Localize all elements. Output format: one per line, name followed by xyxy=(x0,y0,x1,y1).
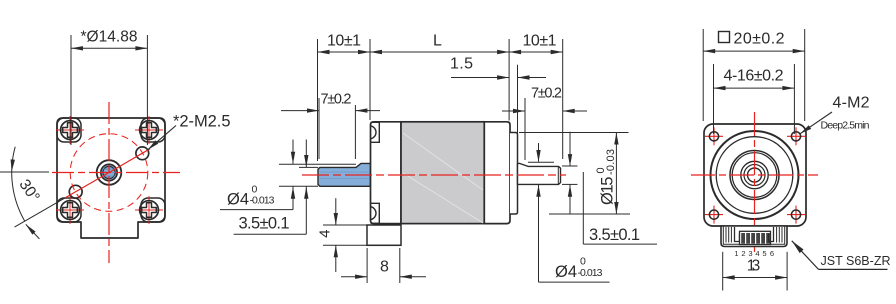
svg-text:20±0.2: 20±0.2 xyxy=(734,31,785,48)
can circle xyxy=(711,131,799,219)
connector body xyxy=(721,226,787,247)
bearing circles xyxy=(741,161,768,188)
M2 hole top-right xyxy=(787,127,805,145)
top arrow xyxy=(10,159,15,171)
leader *2-M2.5 xyxy=(146,113,230,152)
flat ext line short xyxy=(299,166,318,168)
leader 4-M2 xyxy=(800,112,832,134)
dimension phi4 left xyxy=(292,140,294,164)
middle recess xyxy=(740,231,771,244)
bottom arrow xyxy=(26,224,40,239)
dimension 3.5 rear xyxy=(569,132,571,166)
svg-text:0: 0 xyxy=(580,256,586,268)
svg-text:6: 6 xyxy=(770,249,774,258)
rear shaft top ext xyxy=(562,165,578,167)
dimension 4 connector height xyxy=(323,224,367,226)
svg-text:-0.013: -0.013 xyxy=(578,267,603,279)
M2.5 hole lower-left xyxy=(69,185,82,198)
rear shaft bottom ext xyxy=(562,183,578,185)
front flange xyxy=(371,122,402,224)
svg-text:7±0.2: 7±0.2 xyxy=(321,92,352,108)
pocket top-left xyxy=(57,118,81,142)
screw top-left xyxy=(56,116,84,144)
svg-text:7±0.2: 7±0.2 xyxy=(531,86,562,102)
svg-text:2: 2 xyxy=(741,249,745,258)
svg-text:Ø4: Ø4 xyxy=(555,263,577,281)
ext line rear shaft end xyxy=(562,39,564,159)
svg-text:Ø15: Ø15 xyxy=(599,177,617,206)
svg-text:8: 8 xyxy=(380,259,389,276)
dimension square 20 xyxy=(702,29,704,121)
left ribs xyxy=(725,227,727,243)
dimension 3.5 left xyxy=(305,140,307,168)
pocket bottom-right xyxy=(141,198,165,222)
bolt circle red dashed xyxy=(70,134,148,212)
svg-text:4-M2: 4-M2 xyxy=(833,95,870,112)
svg-text:*2-M2.5: *2-M2.5 xyxy=(173,113,231,131)
ext line shaft tip xyxy=(317,39,319,161)
right view connector xyxy=(721,226,787,258)
dimension phi15 xyxy=(519,132,629,134)
dimension *Phi14.88 xyxy=(71,28,147,145)
red centerline middle xyxy=(302,174,566,176)
M2 hole bottom-right xyxy=(787,206,805,224)
dimension phi4 rear xyxy=(538,143,540,162)
svg-text:10±1: 10±1 xyxy=(327,33,361,50)
pocket bottom-left xyxy=(57,198,81,222)
screw bottom-right xyxy=(135,196,163,224)
right view holes + crosses xyxy=(705,127,805,223)
dimension L xyxy=(370,51,509,53)
rear shaft silhouette xyxy=(528,161,554,163)
screw top-right xyxy=(135,116,163,144)
svg-text:-0.03: -0.03 xyxy=(605,149,617,175)
boss circles xyxy=(730,151,779,200)
dimension 13 xyxy=(722,252,724,291)
M2.5 hole upper-right xyxy=(136,147,149,160)
svg-text:JST S6B-ZR: JST S6B-ZR xyxy=(821,254,891,268)
dimension 4-16 xyxy=(713,64,715,134)
shaft center left view xyxy=(97,160,122,185)
svg-text:0: 0 xyxy=(252,183,258,195)
svg-text:4-16±0.2: 4-16±0.2 xyxy=(724,68,784,85)
svg-text:5: 5 xyxy=(762,249,766,258)
pins xyxy=(741,233,745,244)
body outline rear xyxy=(704,124,806,226)
dimension 10+-1 rear xyxy=(509,51,563,53)
30 degree dimension xyxy=(0,147,65,239)
centerline vertical red xyxy=(108,102,110,263)
dimension 7+-0.2 rear xyxy=(524,98,526,160)
ext line rear flange face xyxy=(508,39,510,121)
shaft blue xyxy=(101,164,117,180)
middle dims xyxy=(220,33,657,284)
red construction overlay left view xyxy=(52,102,180,263)
rear shaft end chamfer line xyxy=(557,166,559,184)
horizontal leg xyxy=(0,171,49,173)
right view dims xyxy=(703,29,890,291)
rear boss ring xyxy=(510,133,518,215)
dimension 7+-0.2 front xyxy=(318,98,320,159)
shaft circle xyxy=(748,168,762,182)
inner border xyxy=(723,226,784,244)
arc xyxy=(12,147,25,222)
svg-text:Ø4: Ø4 xyxy=(227,191,249,209)
M2 hole bottom-left xyxy=(705,206,723,224)
svg-text:Deep2.5min: Deep2.5min xyxy=(821,120,870,132)
dimension 8 connector width xyxy=(366,248,368,283)
leader JST S6B-ZR xyxy=(792,241,819,270)
right J hook xyxy=(769,227,774,242)
body outline front xyxy=(57,118,165,238)
rear flange xyxy=(484,122,510,224)
M2 hole top-left xyxy=(705,127,723,145)
flange pocket bottom xyxy=(371,203,380,223)
can reflection lines xyxy=(403,133,483,190)
inner circle xyxy=(103,166,115,178)
svg-text:1: 1 xyxy=(734,249,738,258)
connector side view xyxy=(367,225,401,245)
svg-text:10±1: 10±1 xyxy=(523,33,557,50)
svg-text:3.5±0.1: 3.5±0.1 xyxy=(239,214,290,232)
svg-text:1.5: 1.5 xyxy=(450,56,473,73)
flange pocket top xyxy=(371,122,380,142)
screw bottom-left xyxy=(56,196,84,224)
svg-text:-0.013: -0.013 xyxy=(250,195,275,207)
centerline horizontal red xyxy=(52,172,180,174)
front shaft blue xyxy=(318,163,371,186)
svg-text:4: 4 xyxy=(317,230,334,238)
gray can xyxy=(401,122,484,224)
outer ring xyxy=(97,160,122,185)
shaft hatch stripes xyxy=(102,169,117,176)
svg-text:13: 13 xyxy=(747,258,761,275)
left J hook xyxy=(735,227,740,242)
svg-text:*Ø14.88: *Ø14.88 xyxy=(81,28,138,45)
dimension 10+-1 front xyxy=(318,51,371,53)
30-degree construction line red xyxy=(65,149,150,198)
screws group xyxy=(56,116,163,224)
svg-text:L: L xyxy=(433,33,442,50)
centerline horizontal red xyxy=(691,174,818,176)
pocket top-right xyxy=(141,118,165,142)
centerline vertical red xyxy=(754,112,756,252)
rear shaft xyxy=(518,163,561,184)
shaft silhouette line xyxy=(320,172,369,179)
shaft bottom ext line xyxy=(279,185,318,187)
dimension 1.5 xyxy=(517,65,519,162)
diagonal leg xyxy=(15,198,66,227)
right ribs xyxy=(776,227,778,243)
ext line front flange face xyxy=(369,39,371,120)
svg-text:3.5±0.1: 3.5±0.1 xyxy=(589,226,640,244)
